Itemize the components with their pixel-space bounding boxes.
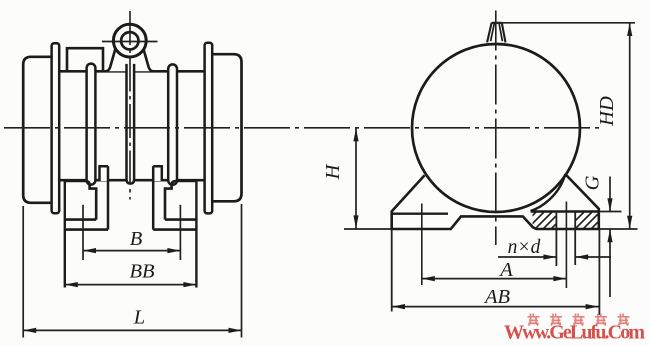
svg-text:B: B (130, 228, 143, 250)
svg-text:L: L (133, 307, 145, 329)
svg-text:HD: HD (596, 96, 618, 127)
svg-text:Www.GeLufu.Com: Www.GeLufu.Com (504, 322, 645, 344)
svg-text:BB: BB (129, 261, 155, 283)
svg-text:H: H (322, 163, 344, 180)
svg-text:G: G (582, 175, 604, 190)
svg-text:AB: AB (483, 286, 511, 308)
svg-text:A: A (498, 259, 513, 281)
svg-text:n×d: n×d (508, 237, 541, 258)
